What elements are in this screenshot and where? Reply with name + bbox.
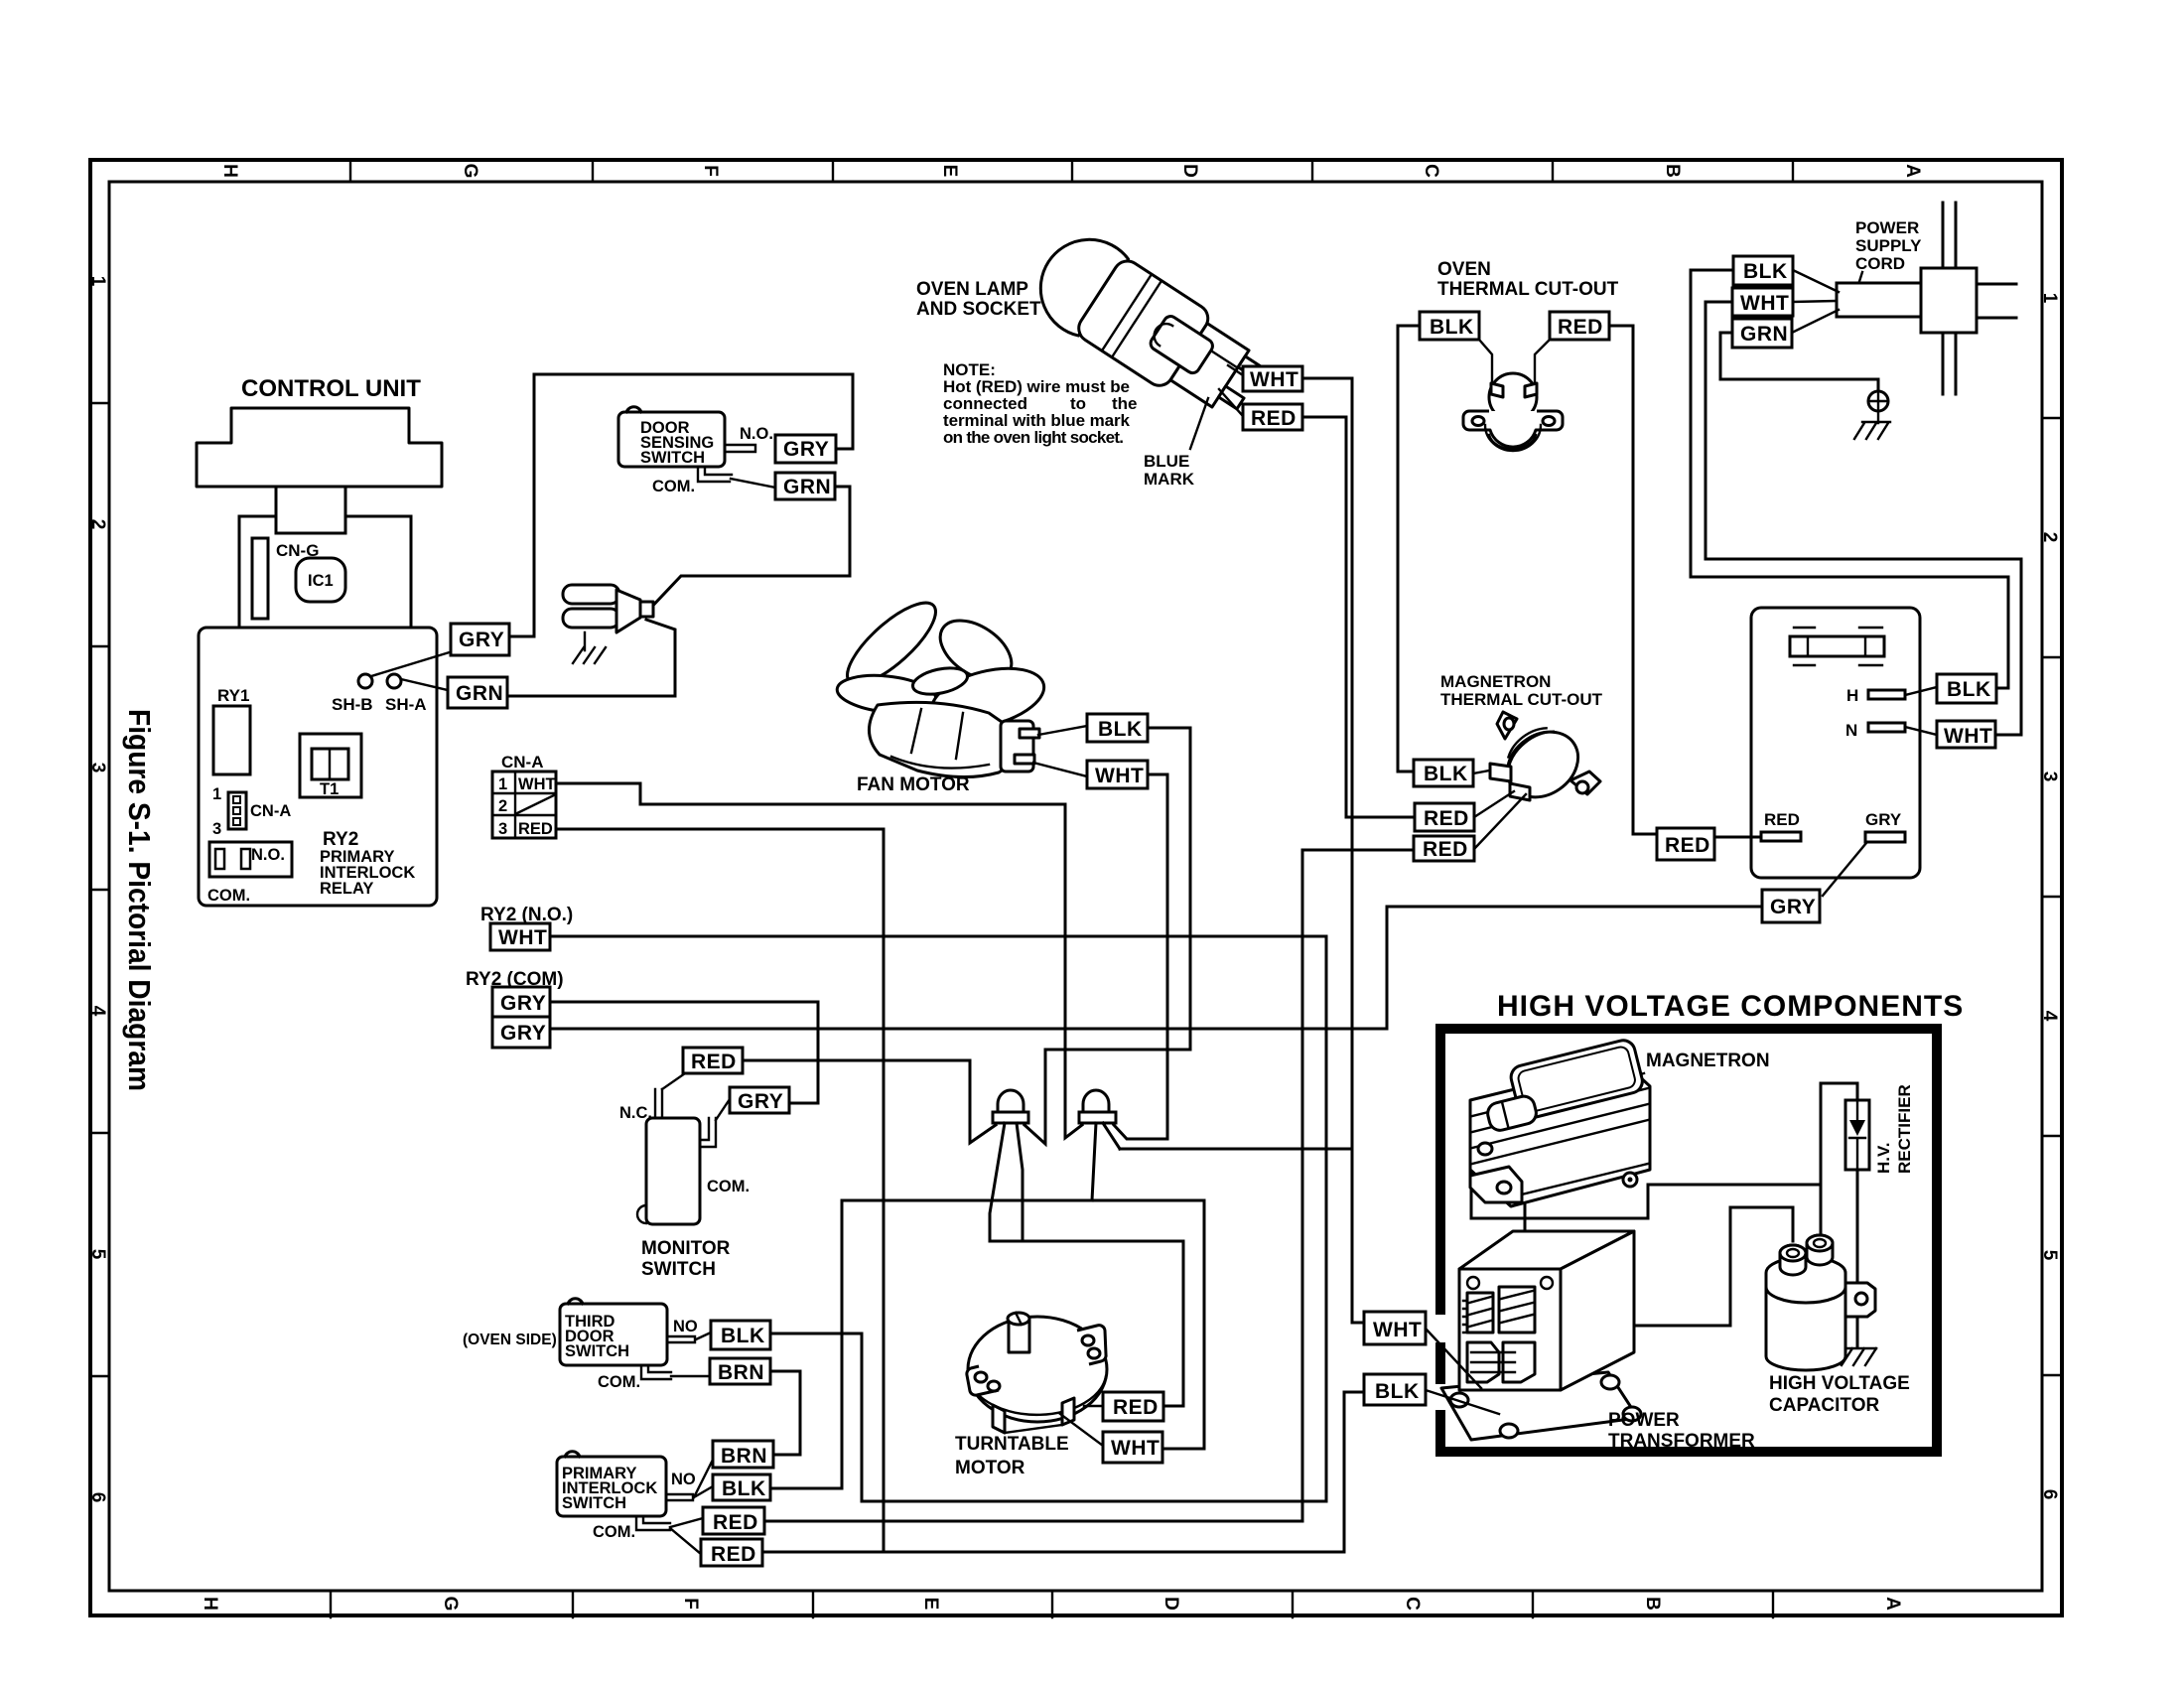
svg-text:GRY: GRY [500,992,546,1015]
control unit CN-G board [239,516,411,638]
connector cone [616,590,640,632]
wire GRY bar to GRY box [1823,843,1866,896]
control unit main board [199,628,437,906]
svg-text:BLK: BLK [1430,316,1474,339]
transformer wire to capacitor [1634,1207,1793,1326]
wire RED(oven thermal) down to RED(filter) [1609,326,1657,834]
wires RED boxes to cutout terminal [1474,791,1526,849]
svg-text:POWER: POWER [1608,1410,1680,1431]
BLUE MARK leader [1190,398,1208,449]
svg-text:COM.: COM. [652,478,695,495]
wire BLK to transformer winding [1426,1390,1499,1414]
turntable motor pictorial [967,1313,1107,1433]
wires stub to BRN2 and BLK2 [694,1460,713,1497]
svg-text:H: H [219,164,240,178]
RED box 1 (magnetron thermal) [1415,803,1474,831]
svg-text:TURNTABLE: TURNTABLE [955,1434,1069,1455]
svg-text:RED: RED [691,1051,737,1073]
svg-text:Figure S-1. Pictorial Diagram: Figure S-1. Pictorial Diagram [122,709,157,1091]
svg-text:4: 4 [87,1006,108,1017]
filter board [1751,608,1920,878]
wire RED to N.C. terminal [662,1073,685,1089]
border gaps for wire crossings [1433,1315,1448,1342]
connector tip [640,602,653,617]
svg-text:NO: NO [671,1471,696,1488]
svg-text:1: 1 [212,785,221,803]
HIGH VOLTAGE CAPACITOR pictorial [1766,1235,1875,1370]
svg-text:2: 2 [498,797,507,815]
wire COM to GRN [731,479,775,488]
wire y1209 BLK run [770,1200,1092,1488]
svg-text:(OVEN SIDE): (OVEN SIDE) [463,1332,557,1348]
RED box 1 (primary interlock COM) [703,1507,764,1534]
magnetron thermal cut-out pictorial [1490,712,1600,810]
svg-text:CAPACITOR: CAPACITOR [1769,1395,1879,1416]
wire GRY(door) loop to GRY(control) [509,374,853,636]
frame row numbers right [2039,293,2060,1500]
CN-A table [492,772,556,838]
svg-text:RED: RED [1423,838,1468,861]
wire GRY to COM terminal [716,1099,730,1120]
earth ground [1854,411,1890,439]
border frame outer [90,160,2062,1615]
svg-text:BLUE: BLUE [1144,452,1189,471]
svg-text:RED: RED [1665,834,1710,857]
wire BRN loop to BRN2 [770,1371,800,1455]
svg-text:F: F [700,165,721,177]
svg-text:N: N [1845,721,1857,740]
svg-text:BLK: BLK [1424,763,1468,785]
svg-text:D: D [1160,1597,1181,1611]
svg-text:HIGH VOLTAGE COMPONENTS: HIGH VOLTAGE COMPONENTS [1497,990,1964,1023]
wire socket to WHT [1228,365,1243,375]
GRN box (cord) [1732,319,1792,348]
wire BLK(oven thermal) down to BLK(magnetron thermal) [1398,326,1420,772]
COM stub [641,1365,671,1379]
svg-text:on the oven light socket.: on the oven light socket. [943,428,1124,447]
svg-text:C: C [1421,164,1441,178]
wire motor to RED [1084,1405,1103,1407]
svg-text:RED: RED [1424,807,1469,830]
svg-text:RED: RED [1251,407,1297,430]
svg-text:WHT: WHT [498,926,547,949]
door sensing switch body [618,412,725,467]
control unit connector stem [276,487,345,533]
GRY terminal bar [1865,832,1905,842]
IC1 [296,558,345,602]
wire CN-A pin3 RED to primary interlock RED [556,829,884,1552]
WHT box (transformer) [1364,1312,1426,1344]
svg-text:BLK: BLK [1743,260,1788,283]
svg-text:A: A [1882,1597,1903,1611]
wire BLK to cutout [1473,771,1489,773]
svg-text:3: 3 [498,820,507,838]
svg-text:GRY: GRY [459,629,504,651]
WHT box (filter N) [1937,721,1995,748]
oven lamp and socket pictorial [1023,221,1276,433]
wire BLK(cord) loop to BLK(filter) [1691,270,2008,688]
svg-text:BRN: BRN [718,1361,764,1384]
svg-text:MAGNETRON: MAGNETRON [1440,672,1551,691]
svg-text:BLK: BLK [721,1325,765,1347]
MAGNETRON pictorial [1470,1038,1650,1206]
svg-text:G: G [440,1597,461,1612]
actuator stub [668,1336,695,1342]
svg-text:SWITCH: SWITCH [641,1259,716,1280]
svg-text:CN-A: CN-A [501,753,544,772]
RY2 relay contacts N.O. [209,842,292,877]
svg-text:3: 3 [212,820,221,838]
H.V. rectifier [1845,1100,1869,1170]
svg-text:N.O.: N.O. [740,425,773,443]
actuator stub [667,1494,693,1500]
svg-text:D: D [1179,164,1200,178]
svg-text:E: E [920,1598,941,1611]
wire GRY1 to monitor GRY [550,1002,818,1103]
wire bulb1 legs to RED(turntable) [990,1241,1183,1406]
GRN box (door sensing) [775,473,835,499]
svg-text:WHT: WHT [1944,725,1992,748]
svg-text:MOTOR: MOTOR [955,1458,1025,1478]
svg-text:H: H [200,1597,220,1611]
GRY box (door sensing) [775,435,836,463]
svg-text:3: 3 [87,763,108,773]
RED box (oven lamp) [1243,404,1302,430]
magnetron filament wire to transformer [1524,1124,1527,1241]
svg-text:WHT: WHT [1095,765,1144,787]
GRY box 1 (RY2 COM) [492,987,550,1018]
frame tick marks bottom [331,1591,1773,1617]
svg-text:RED: RED [1558,316,1603,339]
fuse [1790,636,1884,656]
wire to BRN [671,1375,710,1377]
wire RED(magnetron thermal 2) run [764,850,1414,1521]
svg-text:E: E [939,165,960,178]
wire WHT to transformer winding [1426,1329,1481,1388]
svg-text:OVEN LAMP: OVEN LAMP [916,279,1028,300]
wire WHT(RY2) long run [550,936,1326,1501]
GRY box (control unit) [451,624,509,655]
frame zone letters top [219,164,1923,179]
T1 [300,734,361,797]
svg-text:T1: T1 [320,780,339,798]
WHT box (fan) [1087,761,1148,788]
svg-text:5: 5 [2039,1250,2060,1261]
svg-text:AND SOCKET: AND SOCKET [916,299,1041,320]
svg-text:MAGNETRON: MAGNETRON [1646,1051,1770,1071]
svg-text:GRY: GRY [500,1022,546,1045]
oven thermal cut-out pictorial [1463,340,1563,451]
cord jacket [1837,283,1921,317]
svg-text:GRN: GRN [456,682,503,705]
svg-text:C: C [1402,1597,1423,1611]
frame tick marks top [350,160,1793,182]
RED box 2 (magnetron thermal) [1414,836,1474,861]
wires COM to RED boxes [670,1518,703,1554]
svg-text:5: 5 [87,1249,108,1260]
svg-text:COM.: COM. [598,1373,640,1391]
RED terminal bar [1761,832,1801,841]
monitor plunger [637,1205,646,1223]
frame tick marks right [2042,418,2062,1375]
svg-text:A: A [1902,164,1923,178]
wire bulb2 center to WHT(turntable) [1092,1200,1204,1449]
svg-text:RED: RED [713,1511,758,1534]
svg-text:SUPPLY: SUPPLY [1855,236,1922,255]
WHT box (RY2 N.O.) [490,923,550,950]
RED box 2 (primary interlock COM) [701,1539,762,1566]
svg-text:3: 3 [2039,772,2060,782]
svg-text:1: 1 [498,775,507,793]
wire SH-A to GRN [401,679,448,690]
N.C. terminal [655,1089,662,1118]
svg-text:6: 6 [87,1492,108,1503]
svg-text:N.O.: N.O. [251,846,285,864]
svg-text:B: B [1642,1597,1663,1611]
BLK box (filter H) [1937,674,1996,703]
wire N to WHT [1905,727,1937,735]
BLK box (oven thermal) [1420,312,1479,340]
BLK box (transformer) [1364,1374,1426,1405]
wire RED box to RED bar [1714,836,1761,839]
BRN box (third door COM) [710,1358,770,1384]
wire motor to WHT [1060,1414,1103,1446]
svg-text:CORD: CORD [1855,254,1905,273]
high voltage thick enclosure [1440,1029,1937,1452]
svg-text:G: G [460,164,480,179]
svg-text:F: F [680,1598,701,1610]
wire fan to BLK [1038,726,1087,735]
svg-text:GRY: GRY [1865,810,1902,829]
primary interlock switch body [557,1457,666,1516]
GRN box (control unit) [448,677,507,708]
control unit top housing [197,408,442,487]
svg-text:BRN: BRN [721,1445,767,1468]
fan motor pictorial [835,591,1049,777]
svg-text:TRANSFORMER: TRANSFORMER [1608,1431,1755,1452]
svg-text:BLK: BLK [1375,1380,1420,1403]
svg-text:RED: RED [518,820,553,838]
svg-text:GRN: GRN [1740,323,1788,346]
svg-text:OVEN: OVEN [1437,259,1491,280]
svg-text:GRN: GRN [783,476,831,498]
CN-G slot [252,538,268,619]
svg-text:COM.: COM. [593,1523,635,1541]
wire fan to WHT [1033,763,1087,776]
frame tick marks left [90,403,109,1376]
wire H to BLK [1905,687,1937,695]
svg-text:SWITCH: SWITCH [640,449,705,467]
bulb 1 legs [990,1123,1023,1241]
frame zone letters bottom [200,1597,1903,1612]
monitor switch body [646,1118,700,1224]
svg-text:BLK: BLK [1098,718,1143,741]
BLK box (fan) [1087,714,1148,742]
wire GRN(cord) to ground [1720,333,1878,391]
svg-text:HIGH VOLTAGE: HIGH VOLTAGE [1769,1373,1910,1394]
plug blades right [1977,284,2016,318]
BLK box (third door) [711,1321,770,1349]
svg-text:FAN MOTOR: FAN MOTOR [857,774,970,795]
GRY box 2 (RY2 COM) [492,1017,550,1048]
WHT box (oven lamp) [1243,366,1302,391]
GRY box (monitor) [730,1087,789,1113]
wire GRY box long run to RY2 GRY [550,907,1762,1029]
svg-text:POWER: POWER [1855,218,1919,237]
svg-text:WHT: WHT [1740,292,1789,315]
BLK box (cord) [1733,256,1793,285]
COM stub [636,1516,670,1530]
cord conductors [1943,203,1956,394]
svg-text:WHT: WHT [518,775,556,793]
svg-text:MONITOR: MONITOR [641,1238,731,1259]
svg-text:COM.: COM. [207,887,250,905]
wire CN-A pin1 WHT to lamp socket 2 [556,783,1082,1138]
wire GRN(door) to connector [646,487,850,613]
svg-text:H: H [1846,686,1858,705]
wire connector to GRN(control) [507,620,675,696]
svg-text:CN-A: CN-A [250,802,291,820]
COM terminal [700,1118,716,1147]
RED box (filter) [1657,828,1714,860]
wire RED(monitor) to lamp socket 1 [743,1060,996,1143]
magnetron wires to rectifier and capacitor [1471,1083,1857,1218]
GRY box (filter) [1762,890,1820,922]
third door switch body [560,1304,667,1365]
svg-text:GRY: GRY [738,1090,783,1113]
svg-text:6: 6 [2039,1489,2060,1500]
wire WHT(cord) loop to WHT(filter) [1706,302,2021,735]
leader to cord [1855,272,1862,294]
svg-text:WHT: WHT [1111,1437,1160,1460]
wire WHT(fan) to lamp socket 2 [1114,774,1167,1139]
svg-text:RECTIFIER: RECTIFIER [1895,1084,1914,1174]
SH-A pad [387,674,401,688]
svg-text:WHT: WHT [1373,1319,1422,1341]
BLK box (magnetron thermal) [1414,760,1473,786]
svg-text:BLK: BLK [1947,678,1991,701]
svg-text:COM.: COM. [707,1178,750,1195]
switch bump [626,407,641,412]
svg-text:MARK: MARK [1144,470,1195,489]
POWER TRANSFORMER pictorial [1441,1231,1641,1440]
svg-text:WHT: WHT [1250,368,1298,391]
svg-text:1: 1 [2039,293,2060,304]
lamp bulb 2 [1079,1090,1116,1123]
BLK box 2 (primary interlock NO) [713,1474,770,1500]
svg-text:RED: RED [1113,1396,1159,1419]
svg-text:H.V.: H.V. [1874,1142,1893,1174]
svg-text:SWITCH: SWITCH [565,1342,629,1360]
svg-text:IC1: IC1 [308,572,334,590]
svg-text:RED: RED [1764,810,1800,829]
RED box (monitor) [683,1048,743,1073]
svg-text:2: 2 [87,519,108,530]
bulb 2 legs [1092,1123,1120,1200]
RED box (oven thermal) [1550,312,1609,340]
svg-text:RELAY: RELAY [320,880,373,898]
RED box (turntable) [1103,1392,1163,1421]
svg-text:2: 2 [2039,532,2060,543]
wire bulb2 to WHT(oven lamp) vertical [1120,378,1364,1323]
svg-text:CONTROL UNIT: CONTROL UNIT [241,375,421,402]
COM. stub [698,467,732,482]
svg-text:RED: RED [711,1543,756,1566]
wires boxes to cord [1792,270,1839,333]
WHT box (cord) [1732,288,1793,316]
SH-B pad [358,674,372,688]
WHT box (turntable) [1103,1432,1162,1463]
svg-text:GRY: GRY [1770,896,1816,918]
svg-text:SH-A: SH-A [385,695,427,714]
svg-text:BLK: BLK [722,1477,766,1500]
actuator stub [726,445,755,452]
BRN box 2 (primary interlock NO) [713,1441,773,1468]
svg-text:B: B [1662,164,1683,178]
rectifier ground [1842,1348,1876,1365]
wire socket to RED [1219,389,1243,416]
lamp bulb 1 [993,1090,1028,1123]
plug body [1921,268,1977,333]
frame row numbers left [87,276,108,1503]
svg-text:1: 1 [87,276,108,287]
svg-text:NO: NO [673,1318,698,1335]
svg-text:THERMAL CUT-OUT: THERMAL CUT-OUT [1440,690,1603,709]
svg-text:SWITCH: SWITCH [562,1494,626,1512]
wire SH-B to GRY [371,651,453,676]
svg-text:THERMAL CUT-OUT: THERMAL CUT-OUT [1437,279,1619,300]
wire BLK(fan) to lamp socket 1 [1024,728,1190,1144]
connector ground [573,632,606,663]
wire RED(oven lamp) to RED(magnetron thermal 1) [1302,417,1415,817]
svg-text:4: 4 [2039,1011,2060,1022]
connector lobes [563,585,619,604]
border frame inner [109,182,2042,1591]
svg-text:SH-B: SH-B [332,695,373,714]
svg-text:RY2: RY2 [323,829,358,850]
svg-text:RY1: RY1 [217,686,249,705]
wire RED2 to BLK(transformer) run [762,1392,1364,1552]
ground circle symbol [1868,391,1888,411]
svg-text:GRY: GRY [783,438,829,461]
